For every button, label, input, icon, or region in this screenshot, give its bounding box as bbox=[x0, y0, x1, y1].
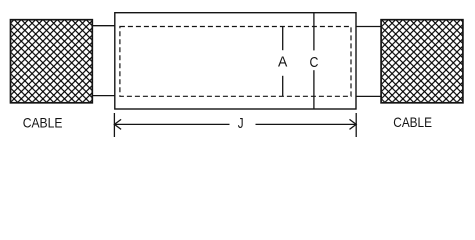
splice body outline bbox=[115, 13, 356, 109]
dimension line J bbox=[114, 119, 356, 129]
svg-text:C: C bbox=[309, 54, 318, 71]
wire: right connector top bbox=[356, 26, 381, 28]
dimension extension line right bbox=[355, 113, 357, 137]
wire: left connector bottom bbox=[92, 95, 114, 97]
wire: right connector bottom bbox=[356, 95, 381, 97]
leader line C bbox=[313, 13, 315, 109]
cable right (hatched) bbox=[381, 20, 463, 103]
wire: left connector top bbox=[92, 25, 114, 27]
cable left (hatched) bbox=[11, 20, 93, 103]
svg-text:J: J bbox=[238, 115, 244, 132]
leader line A bbox=[282, 27, 284, 97]
dimension extension line left bbox=[113, 113, 115, 137]
hidden cable outline (dashed rect) bbox=[120, 27, 351, 97]
svg-text:CABLE: CABLE bbox=[23, 114, 63, 130]
svg-text:A: A bbox=[278, 54, 287, 71]
svg-text:CABLE: CABLE bbox=[393, 114, 432, 130]
